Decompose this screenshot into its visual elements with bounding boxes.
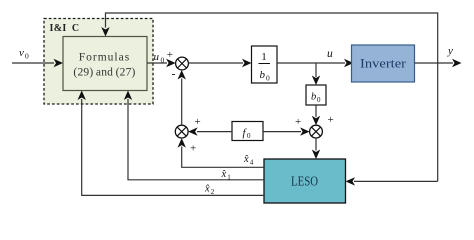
svg-text:1: 1 (227, 174, 231, 182)
wire Inverter to output y (415, 62, 454, 64)
dashed controller box I&I C (44, 19, 153, 105)
block Inverter (352, 45, 415, 82)
block LESO (264, 159, 346, 203)
svg-text:0: 0 (25, 52, 29, 61)
wire S2 up to S1 minus input (181, 79, 183, 126)
svg-text:u: u (154, 51, 160, 63)
svg-text:+: + (328, 114, 334, 126)
svg-text:(29) and (27): (29) and (27) (73, 67, 135, 79)
block b0 (306, 85, 326, 105)
svg-text:+: + (167, 49, 173, 61)
svg-text:+: + (195, 116, 201, 128)
wire x1hat from LESO to Formulas bottom (128, 99, 264, 180)
svg-text:x̂: x̂ (243, 154, 249, 165)
svg-text:-: - (172, 67, 176, 81)
svg-text:Inverter: Inverter (360, 57, 407, 71)
svg-text:x̂: x̂ (204, 184, 210, 195)
wire Formulas output u0 (147, 62, 167, 64)
wire branch u down to b0 (315, 63, 317, 77)
block f0 (232, 122, 263, 141)
svg-text:0: 0 (266, 74, 270, 83)
summing junction S1 (u0 - z) (176, 57, 189, 70)
svg-text:0: 0 (317, 96, 321, 104)
wire 1/b0 to Inverter (277, 62, 345, 64)
block 1/b0 (252, 46, 278, 83)
svg-text:LESO: LESO (291, 175, 318, 190)
svg-text:y: y (447, 45, 453, 57)
wire feedback y: up line, top run, down into Formulas (106, 13, 438, 181)
wire v0 input (12, 62, 54, 64)
svg-text:b: b (311, 92, 316, 103)
svg-text:b: b (260, 69, 266, 81)
wire f0 to S2 (left) (197, 131, 232, 133)
svg-text:x̂: x̂ (221, 169, 227, 180)
svg-text:I&I C: I&I C (50, 23, 80, 34)
svg-text:Formulas: Formulas (79, 52, 130, 64)
svg-text:0: 0 (161, 56, 165, 65)
svg-text:u: u (327, 48, 333, 60)
svg-text:+: + (295, 116, 301, 128)
summing junction S3 (right) (310, 125, 323, 138)
wire feedback into LESO right (354, 180, 438, 182)
svg-text:+: + (190, 143, 196, 155)
summing junction S2 (left) (175, 125, 188, 138)
svg-text:2: 2 (211, 188, 215, 196)
svg-text:4: 4 (250, 159, 254, 167)
svg-text:0: 0 (247, 132, 251, 140)
wire x4hat from LESO to S2 (182, 147, 264, 168)
block Formulas (29) and (27) (63, 37, 147, 91)
wire x2hat from LESO to Formulas bottom (82, 99, 264, 195)
svg-text:1: 1 (261, 51, 267, 63)
wire b0 down to S3 (315, 105, 317, 117)
svg-text:v: v (19, 47, 24, 59)
wire S1 to 1/b0 (188, 62, 243, 64)
wire S3 down into LESO (315, 138, 317, 151)
wire f0 to S3 (right) (263, 131, 301, 133)
